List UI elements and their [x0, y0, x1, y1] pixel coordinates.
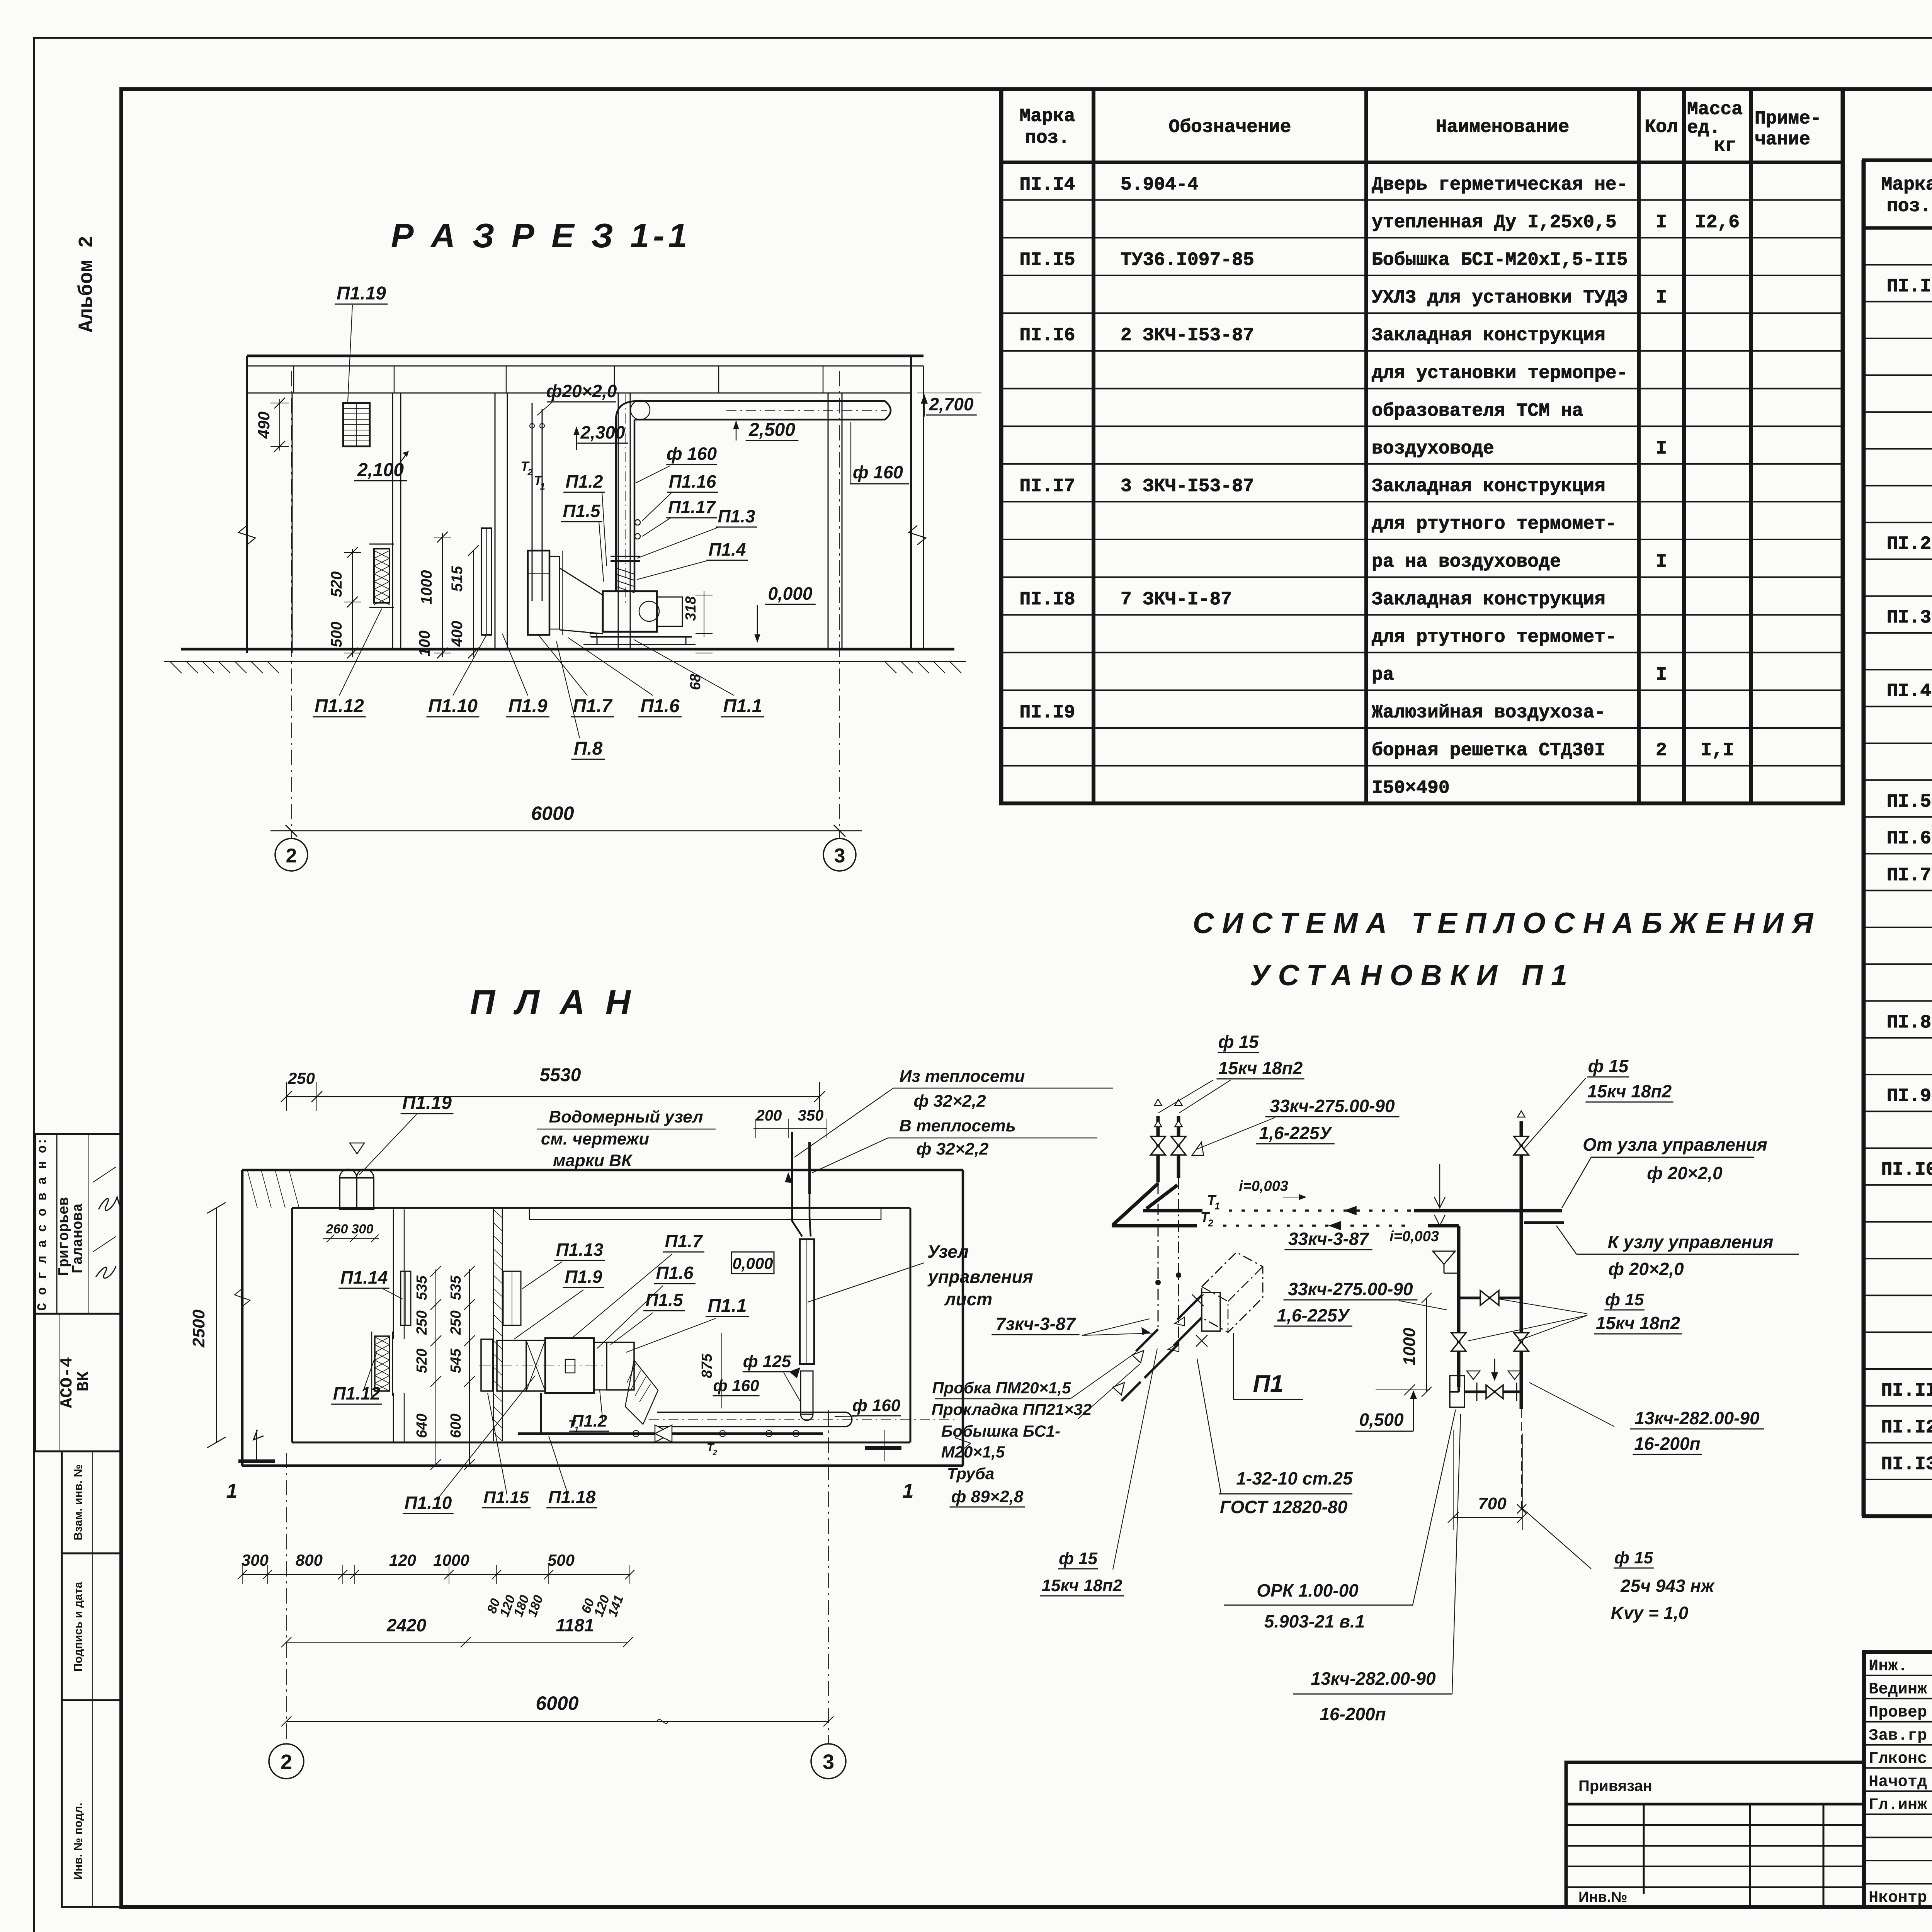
svg-text:Прокладка ПП21×32: Прокладка ПП21×32 [932, 1400, 1092, 1418]
svg-text:3 ЗКЧ-I53-87: 3 ЗКЧ-I53-87 [1121, 476, 1254, 497]
svg-text:Инв.№: Инв.№ [1578, 1889, 1628, 1905]
svg-text:120: 120 [389, 1551, 416, 1569]
svg-text:Подпись и дата: Подпись и дата [72, 1582, 85, 1672]
svg-text:2,300: 2,300 [580, 422, 625, 442]
svg-text:Закладная конструкция: Закладная конструкция [1372, 589, 1605, 610]
svg-text:управления: управления [927, 1267, 1033, 1287]
svg-text:I,I: I,I [1701, 740, 1734, 761]
svg-text:ф 160: ф 160 [853, 462, 903, 482]
svg-text:утепленная Ду I,25х0,5: утепленная Ду I,25х0,5 [1372, 212, 1617, 233]
svg-text:Обозначение: Обозначение [1169, 117, 1291, 138]
svg-text:П1.9: П1.9 [508, 696, 548, 716]
svg-text:ПI.I8: ПI.I8 [1019, 589, 1075, 610]
svg-text:Пробка ПМ20×1,5: Пробка ПМ20×1,5 [932, 1379, 1071, 1397]
svg-text:33кч-275.00-90: 33кч-275.00-90 [1270, 1096, 1395, 1116]
svg-text:поз.: поз. [1025, 128, 1070, 149]
svg-text:чание: чание [1755, 129, 1810, 150]
svg-text:П1.14: П1.14 [340, 1267, 388, 1287]
svg-text:1181: 1181 [556, 1615, 594, 1635]
svg-text:1: 1 [1214, 1201, 1220, 1212]
svg-text:Гл.инж: Гл.инж [1869, 1796, 1927, 1814]
svg-text:i=0,003: i=0,003 [1239, 1178, 1288, 1194]
svg-text:5530: 5530 [540, 1065, 581, 1085]
svg-text:100: 100 [416, 631, 433, 656]
svg-text:ПI.4: ПI.4 [1887, 681, 1931, 702]
svg-text:ПI.I2: ПI.I2 [1881, 1417, 1932, 1438]
svg-text:1,6-225У: 1,6-225У [1277, 1305, 1350, 1325]
svg-text:для ртутного термомет-: для ртутного термомет- [1372, 627, 1617, 648]
svg-text:ф 125: ф 125 [743, 1352, 791, 1371]
svg-text:см. чертежи: см. чертежи [541, 1129, 649, 1148]
svg-text:490: 490 [255, 412, 273, 439]
svg-text:640: 640 [414, 1413, 430, 1438]
svg-text:Начотд: Начотд [1869, 1772, 1927, 1791]
svg-text:2: 2 [281, 1750, 292, 1774]
svg-text:П1.5: П1.5 [645, 1290, 683, 1310]
svg-text:ПI.5: ПI.5 [1887, 791, 1931, 812]
svg-text:0,500: 0,500 [1359, 1410, 1404, 1430]
svg-text:I50×490: I50×490 [1372, 778, 1450, 799]
svg-text:13кч-282.00-90: 13кч-282.00-90 [1311, 1668, 1436, 1689]
svg-text:П1.19: П1.19 [402, 1093, 452, 1113]
svg-text:П.8: П.8 [574, 738, 603, 759]
svg-text:800: 800 [296, 1551, 323, 1569]
svg-text:16-200п: 16-200п [1634, 1434, 1700, 1454]
svg-text:Привязан: Привязан [1578, 1777, 1652, 1794]
svg-text:Водомерный узел: Водомерный узел [549, 1107, 703, 1126]
svg-text:ПI.I3: ПI.I3 [1881, 1454, 1932, 1475]
svg-text:2,100: 2,100 [357, 460, 404, 480]
svg-text:I2,6: I2,6 [1695, 212, 1740, 233]
svg-text:ф 20×2,0: ф 20×2,0 [1608, 1259, 1684, 1279]
svg-text:Р А З Р Е З 1-1: Р А З Р Е З 1-1 [391, 216, 691, 255]
svg-text:2: 2 [712, 1449, 717, 1457]
svg-text:3: 3 [823, 1750, 834, 1774]
svg-text:ПI.I4: ПI.I4 [1019, 174, 1075, 195]
svg-text:Из теплосети: Из теплосети [900, 1067, 1025, 1086]
svg-text:Наименование: Наименование [1436, 117, 1570, 138]
svg-text:Бобышка БС1-: Бобышка БС1- [941, 1422, 1060, 1440]
svg-text:ПI.9: ПI.9 [1887, 1086, 1931, 1107]
svg-text:500: 500 [548, 1551, 575, 1569]
svg-text:для ртутного термомет-: для ртутного термомет- [1372, 514, 1617, 535]
svg-text:1000: 1000 [418, 570, 435, 605]
svg-text:поз.: поз. [1887, 196, 1931, 217]
svg-text:Жалюзийная воздухоза-: Жалюзийная воздухоза- [1372, 702, 1605, 723]
svg-text:33кч-3-87: 33кч-3-87 [1288, 1229, 1369, 1249]
svg-text:520: 520 [414, 1349, 430, 1373]
svg-text:П1.13: П1.13 [556, 1240, 604, 1260]
svg-text:2: 2 [1207, 1218, 1213, 1229]
svg-text:Бобышка БСI-М20хI,5-II5: Бобышка БСI-М20хI,5-II5 [1372, 250, 1628, 270]
svg-text:Вединж: Вединж [1869, 1680, 1927, 1699]
svg-text:6000: 6000 [531, 803, 574, 824]
svg-text:П1.9: П1.9 [565, 1267, 602, 1287]
svg-text:0,000: 0,000 [768, 583, 813, 604]
svg-text:ра на воздуховоде: ра на воздуховоде [1372, 551, 1561, 572]
svg-text:535: 535 [448, 1275, 464, 1300]
svg-text:П1.10: П1.10 [405, 1493, 452, 1513]
svg-text:15кч 18п2: 15кч 18п2 [1042, 1576, 1122, 1595]
svg-text:260: 260 [326, 1222, 348, 1236]
svg-text:318: 318 [683, 596, 699, 621]
svg-text:1: 1 [903, 1480, 914, 1502]
svg-text:СИСТЕМА ТЕПЛОСНАБЖЕНИЯ: СИСТЕМА ТЕПЛОСНАБЖЕНИЯ [1193, 907, 1821, 940]
svg-text:ОРК 1.00-00: ОРК 1.00-00 [1257, 1580, 1359, 1600]
svg-text:500: 500 [328, 622, 345, 648]
svg-text:5.904-4: 5.904-4 [1121, 174, 1199, 195]
svg-text:П1.2: П1.2 [565, 471, 603, 492]
svg-text:П1.1: П1.1 [707, 1296, 747, 1316]
svg-text:2: 2 [527, 467, 533, 478]
svg-text:образователя ТСМ на: образователя ТСМ на [1372, 401, 1583, 422]
svg-text:лист: лист [944, 1289, 992, 1309]
svg-text:ПI.I6: ПI.I6 [1019, 325, 1075, 346]
svg-text:ф20×2,0: ф20×2,0 [546, 381, 617, 401]
svg-text:535: 535 [414, 1275, 430, 1300]
svg-text:кг: кг [1714, 136, 1736, 156]
svg-text:200: 200 [756, 1107, 782, 1124]
svg-text:Инв. № подл.: Инв. № подл. [72, 1803, 85, 1879]
svg-text:ПI.3: ПI.3 [1887, 607, 1931, 628]
svg-text:I: I [1656, 212, 1667, 233]
svg-text:воздуховоде: воздуховоде [1372, 438, 1494, 459]
svg-text:Взам. инв. №: Взам. инв. № [72, 1464, 85, 1541]
svg-text:Провер: Провер [1869, 1703, 1927, 1722]
svg-text:Галанова: Галанова [70, 1203, 87, 1274]
svg-text:1-32-10 ст.25: 1-32-10 ст.25 [1236, 1468, 1353, 1488]
svg-text:ПI.I7: ПI.I7 [1019, 476, 1075, 497]
svg-text:300: 300 [352, 1222, 374, 1236]
svg-text:ф 15: ф 15 [1605, 1290, 1644, 1309]
svg-text:ГОСТ 12820-80: ГОСТ 12820-80 [1220, 1497, 1348, 1517]
svg-text:2500: 2500 [189, 1310, 208, 1348]
svg-text:П1.4: П1.4 [708, 539, 746, 560]
svg-text:Закладная конструкция: Закладная конструкция [1372, 476, 1605, 497]
svg-text:П1.19: П1.19 [337, 283, 386, 304]
svg-text:Зав.гр: Зав.гр [1869, 1726, 1927, 1745]
svg-text:П1.1: П1.1 [723, 696, 762, 716]
svg-text:К узлу управления: К узлу управления [1608, 1232, 1774, 1252]
svg-text:Дверь герметическая не-: Дверь герметическая не- [1372, 174, 1628, 195]
svg-text:УСТАНОВКИ П1: УСТАНОВКИ П1 [1250, 959, 1575, 992]
svg-text:ф 160: ф 160 [667, 444, 717, 464]
svg-text:875: 875 [699, 1353, 715, 1378]
svg-text:борная решетка СТД30I: борная решетка СТД30I [1372, 740, 1605, 761]
svg-text:Глконс: Глконс [1869, 1749, 1927, 1768]
svg-text:П1.10: П1.10 [428, 696, 478, 716]
svg-text:ПI.7: ПI.7 [1887, 865, 1931, 886]
svg-text:Марка: Марка [1881, 175, 1932, 196]
svg-text:ПI.6: ПI.6 [1887, 828, 1931, 849]
svg-text:УХЛ3 для установки ТУДЭ: УХЛ3 для установки ТУДЭ [1372, 287, 1628, 308]
svg-text:250: 250 [414, 1310, 430, 1335]
svg-text:16-200п: 16-200п [1320, 1704, 1386, 1724]
svg-text:ПI.I5: ПI.I5 [1019, 250, 1075, 270]
svg-text:П1.16: П1.16 [669, 471, 716, 492]
svg-text:П1.3: П1.3 [718, 506, 755, 526]
svg-text:I: I [1656, 438, 1667, 459]
svg-text:ра: ра [1372, 665, 1394, 685]
svg-text:ф 15: ф 15 [1614, 1548, 1653, 1567]
svg-text:П1.6: П1.6 [656, 1263, 693, 1283]
svg-text:1000: 1000 [1400, 1328, 1419, 1366]
svg-text:П1.5: П1.5 [563, 501, 600, 521]
svg-text:П Л А Н: П Л А Н [470, 983, 636, 1022]
svg-text:ПI.I9: ПI.I9 [1019, 702, 1075, 723]
svg-text:i=0,003: i=0,003 [1389, 1228, 1439, 1245]
svg-text:300: 300 [241, 1551, 269, 1569]
svg-text:5.903-21 в.1: 5.903-21 в.1 [1264, 1611, 1365, 1631]
svg-text:ф 32×2,2: ф 32×2,2 [917, 1139, 989, 1158]
svg-text:ф 15: ф 15 [1588, 1056, 1629, 1076]
svg-text:От узла управления: От узла управления [1583, 1134, 1767, 1155]
svg-text:Альбом 2: Альбом 2 [75, 236, 98, 332]
svg-text:15кч 18п2: 15кч 18п2 [1596, 1313, 1680, 1333]
svg-text:I: I [1656, 287, 1667, 308]
svg-text:В теплосеть: В теплосеть [899, 1116, 1016, 1135]
svg-text:Kvy = 1,0: Kvy = 1,0 [1611, 1603, 1689, 1623]
svg-text:Марка: Марка [1019, 106, 1075, 127]
svg-text:П1.18: П1.18 [548, 1487, 596, 1507]
svg-text:1,6-225У: 1,6-225У [1259, 1123, 1333, 1143]
svg-text:0,000: 0,000 [732, 1254, 773, 1272]
svg-text:Нконтр: Нконтр [1869, 1888, 1927, 1907]
svg-text:Узел: Узел [927, 1242, 969, 1262]
svg-text:ПI.2: ПI.2 [1887, 534, 1931, 555]
svg-text:400: 400 [449, 621, 466, 647]
svg-text:515: 515 [449, 566, 466, 592]
svg-text:П1.6: П1.6 [640, 696, 680, 716]
svg-text:П1.12: П1.12 [333, 1383, 381, 1403]
svg-text:250: 250 [448, 1310, 464, 1335]
svg-text:ф 160: ф 160 [713, 1376, 759, 1395]
svg-text:ВК: ВК [74, 1371, 94, 1391]
svg-text:ТУ36.I097-85: ТУ36.I097-85 [1121, 250, 1254, 270]
svg-text:2420: 2420 [386, 1615, 427, 1635]
svg-text:3: 3 [834, 845, 845, 867]
svg-text:Труба: Труба [947, 1464, 994, 1483]
svg-text:М20×1,5: М20×1,5 [941, 1443, 1005, 1461]
svg-text:33кч-275.00-90: 33кч-275.00-90 [1288, 1279, 1413, 1299]
svg-text:68: 68 [687, 673, 704, 690]
svg-text:Закладная конструкция: Закладная конструкция [1372, 325, 1605, 346]
svg-text:350: 350 [798, 1107, 824, 1124]
svg-text:ф 20×2,0: ф 20×2,0 [1647, 1163, 1723, 1183]
svg-text:ф 15: ф 15 [1059, 1549, 1098, 1568]
svg-text:545: 545 [448, 1348, 464, 1373]
svg-text:П1.12: П1.12 [315, 696, 364, 716]
svg-text:ф 32×2,2: ф 32×2,2 [914, 1092, 986, 1111]
svg-text:ПI.I0: ПI.I0 [1881, 1160, 1932, 1180]
svg-text:520: 520 [328, 571, 345, 597]
svg-text:2 ЗКЧ-I53-87: 2 ЗКЧ-I53-87 [1121, 325, 1254, 346]
svg-text:ф 160: ф 160 [852, 1396, 901, 1415]
svg-text:П1.7: П1.7 [665, 1231, 703, 1251]
svg-text:ПI.I: ПI.I [1887, 276, 1931, 297]
svg-text:П1.17: П1.17 [668, 497, 716, 517]
svg-text:2,700: 2,700 [929, 394, 974, 414]
svg-text:13кч-282.00-90: 13кч-282.00-90 [1634, 1408, 1760, 1428]
svg-text:250: 250 [287, 1069, 315, 1087]
svg-text:П1.7: П1.7 [573, 696, 613, 716]
svg-text:1: 1 [226, 1480, 238, 1502]
svg-text:Приме-: Приме- [1755, 109, 1821, 129]
svg-text:Кол: Кол [1645, 117, 1678, 138]
svg-text:7зкч-3-87: 7зкч-3-87 [996, 1314, 1076, 1334]
svg-text:С о г л а с о в а н о:: С о г л а с о в а н о: [36, 1138, 50, 1311]
svg-text:П1: П1 [1253, 1371, 1283, 1397]
svg-text:марки ВК: марки ВК [553, 1151, 633, 1170]
svg-text:700: 700 [1478, 1494, 1507, 1513]
svg-text:I: I [1656, 551, 1667, 572]
svg-text:ПI.8: ПI.8 [1887, 1012, 1931, 1033]
svg-text:ф 15: ф 15 [1218, 1032, 1259, 1052]
svg-text:7 ЗКЧ-I-87: 7 ЗКЧ-I-87 [1121, 589, 1232, 610]
svg-text:15кч 18п2: 15кч 18п2 [1587, 1081, 1672, 1101]
svg-text:2: 2 [286, 845, 297, 867]
svg-text:Масса: Масса [1687, 99, 1743, 120]
svg-text:I: I [1656, 665, 1667, 685]
svg-text:для установки термопре-: для установки термопре- [1372, 363, 1628, 384]
svg-text:ф 89×2,8: ф 89×2,8 [951, 1487, 1024, 1506]
svg-text:1: 1 [540, 481, 545, 492]
svg-text:2,500: 2,500 [748, 420, 795, 440]
svg-text:6000: 6000 [536, 1692, 578, 1714]
svg-text:600: 600 [448, 1413, 464, 1438]
svg-text:1000: 1000 [433, 1551, 469, 1569]
svg-text:Инж.: Инж. [1869, 1657, 1908, 1675]
svg-text:2: 2 [1656, 740, 1667, 761]
svg-text:ПI.II: ПI.II [1881, 1381, 1932, 1401]
svg-text:15кч 18п2: 15кч 18п2 [1218, 1058, 1303, 1078]
svg-text:25ч 943 нж: 25ч 943 нж [1620, 1576, 1715, 1596]
